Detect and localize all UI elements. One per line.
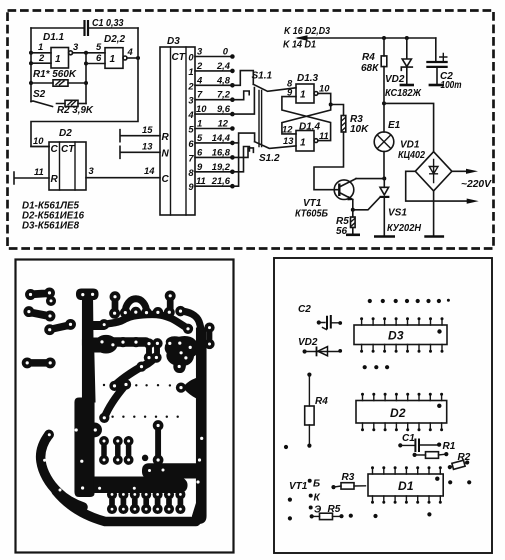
svg-text:15: 15 (142, 124, 153, 135)
resistor R5 (336, 210, 360, 237)
svg-text:КС182Ж: КС182Ж (385, 88, 422, 99)
svg-text:9: 9 (197, 161, 203, 172)
svg-text:C1 0,33: C1 0,33 (92, 18, 124, 29)
wire D2.2 pin6 (86, 63, 105, 65)
trace dumbbell a3 (45, 320, 76, 335)
svg-text:19,2: 19,2 (212, 161, 231, 172)
svg-text:K 14 D1: K 14 D1 (283, 40, 316, 51)
svg-text:S1.1: S1.1 (252, 71, 273, 82)
svg-text:E1: E1 (388, 120, 401, 131)
wire gate VS1 (353, 197, 380, 209)
svg-text:12: 12 (282, 124, 293, 135)
thyristor VS1 (374, 179, 422, 237)
wire bridge bottom terminal (424, 191, 444, 237)
resistor R3 (314, 105, 369, 190)
node D3 out 3 (188, 89, 234, 106)
IC D3 placement (354, 317, 447, 353)
switch S1.2 (232, 133, 296, 186)
capacitor C2 placement (298, 304, 342, 330)
svg-text:12: 12 (218, 118, 229, 129)
drill holes white (26, 291, 211, 510)
wire feed rail K16 (283, 26, 436, 51)
resistor R4 (361, 38, 387, 103)
node D3 out 2 (187, 74, 234, 91)
trace wavy horizontal (104, 314, 193, 333)
trace peninsula and shelf (94, 464, 204, 493)
single pad dot (142, 455, 147, 460)
resistor R2 placement (447, 452, 471, 471)
svg-text:S1.2: S1.2 (259, 153, 280, 164)
wire D2.2 out pin4 (127, 56, 140, 60)
svg-text:2: 2 (38, 52, 45, 63)
svg-text:5: 5 (197, 132, 203, 143)
svg-text:4: 4 (196, 74, 203, 85)
svg-text:C: C (162, 174, 170, 185)
svg-text:D2,2: D2,2 (104, 34, 126, 45)
svg-text:КУ202Н: КУ202Н (387, 223, 422, 234)
gate D1.4 (282, 122, 329, 152)
wire D2 pin10 (31, 135, 49, 147)
svg-text:2: 2 (196, 60, 203, 71)
svg-text:1: 1 (55, 54, 61, 65)
bridge rectifier VD1 (398, 140, 452, 191)
svg-text:D1: D1 (398, 479, 414, 493)
svg-text:14,4: 14,4 (212, 132, 231, 143)
counter U3 D3 (160, 36, 195, 215)
wire top loop C1 (31, 27, 138, 29)
svg-text:9: 9 (188, 181, 194, 192)
trace main trunk (56, 289, 197, 523)
svg-text:7,2: 7,2 (217, 89, 231, 100)
wire lamp to rail (382, 101, 386, 178)
wire feedback loop right (31, 28, 138, 147)
trace right band with hook and flare (176, 306, 206, 523)
svg-text:1: 1 (188, 66, 193, 77)
trace dumbbell a1 (26, 288, 56, 305)
svg-text:R4: R4 (315, 396, 328, 407)
wire D2 pin3 to D3 pin14 (86, 165, 160, 178)
svg-text:3: 3 (89, 165, 95, 176)
zener diode VD2 (385, 38, 422, 99)
svg-text:Б: Б (313, 479, 320, 490)
resistor R1 placement (413, 452, 449, 459)
svg-text:VD2: VD2 (385, 74, 405, 85)
svg-text:3: 3 (188, 95, 194, 106)
wire D1.1 pin1 (31, 52, 51, 54)
svg-text:6: 6 (188, 138, 194, 149)
svg-text:11: 11 (34, 166, 44, 177)
trace dumbbell a2 (24, 307, 55, 321)
svg-text:0: 0 (223, 46, 229, 57)
svg-text:VS1: VS1 (388, 208, 407, 219)
wire left vertical (29, 28, 33, 102)
SCHEMATIC-BORDER (8, 11, 494, 249)
switch link S1 (259, 91, 262, 147)
switch S2 (31, 89, 65, 107)
svg-text:4: 4 (187, 109, 194, 120)
node D3 out 9 (188, 175, 234, 192)
svg-text:К: К (314, 493, 321, 504)
trace banana (41, 430, 83, 507)
wire latch cross 10-12 (282, 93, 333, 133)
svg-text:R2 3,9K: R2 3,9K (57, 105, 94, 116)
svg-text:C1: C1 (402, 433, 415, 444)
solder dots below D3 (363, 365, 390, 369)
op-amp U1 gate D1.1 (38, 32, 79, 68)
wire D1.1 out to D2.2 (73, 51, 105, 55)
svg-text:10: 10 (33, 135, 44, 146)
trace v-dumbbell c1 (144, 339, 153, 362)
resistor R2 (57, 100, 94, 116)
svg-text:K 16 D2,D3: K 16 D2,D3 (284, 26, 330, 37)
trace margin dumbbell d2 (205, 323, 214, 349)
trace wishbone curve1 (110, 358, 155, 391)
solder dots row above D3 (368, 299, 450, 303)
transistor VT1 placement (289, 479, 322, 516)
svg-text:5: 5 (96, 41, 102, 52)
placement frame (274, 258, 492, 553)
resistor R4 placement (305, 373, 329, 448)
svg-text:C: C (51, 144, 59, 155)
svg-text:КТ605Б: КТ605Б (295, 209, 328, 220)
svg-text:2,4: 2,4 (216, 60, 231, 71)
trace dumbbell a4 (22, 358, 55, 368)
trace v-dumbbell b1 (110, 292, 120, 318)
svg-text:3: 3 (197, 46, 203, 57)
svg-text:1: 1 (300, 90, 306, 101)
svg-text:КЦ402: КЦ402 (398, 150, 425, 161)
stray solder dots (284, 445, 471, 521)
svg-text:R: R (51, 174, 59, 185)
svg-text:D3-К561ИЕ8: D3-К561ИЕ8 (22, 221, 79, 232)
svg-text:0: 0 (188, 52, 194, 63)
svg-text:1: 1 (197, 118, 202, 129)
capacitor C1 (85, 18, 124, 36)
SCHEMATIC (14, 18, 195, 232)
node D3 out 8 (188, 161, 234, 178)
svg-text:11: 11 (196, 175, 206, 186)
trace v-dumbbell c2 (152, 339, 162, 362)
node D3 out 7 (188, 146, 234, 163)
trace omega arch cluster (121, 299, 163, 318)
svg-text:CT: CT (172, 52, 186, 63)
svg-text:10K: 10K (350, 124, 369, 135)
svg-text:10: 10 (319, 83, 330, 94)
svg-text:1: 1 (300, 138, 306, 149)
node emitter junction (351, 208, 355, 212)
svg-text:D3: D3 (167, 36, 180, 47)
trace curve2 (100, 380, 131, 423)
svg-text:8: 8 (188, 167, 194, 178)
node D3 out 0 (188, 46, 234, 63)
trace star cluster (165, 337, 198, 373)
svg-text:R1: R1 (443, 441, 456, 452)
wire bridge out top 220V (452, 169, 478, 174)
svg-text:R1* 560K: R1* 560K (33, 69, 77, 80)
wire D1.1 pin2 (31, 62, 51, 64)
svg-text:7: 7 (188, 152, 194, 163)
lamp E1 (374, 120, 400, 152)
svg-text:D1.1: D1.1 (43, 32, 65, 43)
switch S1.1 (232, 71, 296, 115)
svg-text:1: 1 (110, 54, 116, 65)
svg-text:21,6: 21,6 (211, 175, 231, 186)
counter U2 D2 (49, 128, 86, 190)
tall v-dumbbell (153, 421, 163, 465)
svg-text:D3: D3 (388, 329, 404, 343)
svg-text:3: 3 (73, 41, 79, 52)
svg-text:C2: C2 (298, 304, 311, 315)
svg-text:14: 14 (144, 165, 155, 176)
svg-text:S2: S2 (33, 89, 46, 100)
svg-text:VD2: VD2 (298, 337, 318, 348)
svg-text:R4: R4 (362, 52, 375, 63)
node D3 out 4 (187, 103, 234, 120)
capacitor C1 placement (398, 433, 456, 452)
svg-text:VT1: VT1 (303, 198, 322, 209)
svg-text:~220V: ~220V (461, 179, 492, 190)
SCHEMATIC outputs and switches (187, 26, 492, 237)
svg-text:5: 5 (188, 124, 194, 135)
svg-text:D2: D2 (59, 128, 72, 139)
svg-text:D1.3: D1.3 (297, 73, 319, 84)
svg-text:6: 6 (197, 146, 203, 157)
wire bridge out bottom 220V (406, 171, 493, 203)
svg-text:13: 13 (142, 141, 153, 152)
svg-text:11: 11 (319, 130, 329, 141)
wire D3 pin13 with terminal (120, 141, 160, 159)
svg-text:10: 10 (196, 103, 207, 114)
wire collector to lamp line (356, 177, 386, 181)
diode VD2 placement (298, 337, 342, 356)
svg-text:7: 7 (197, 89, 203, 100)
resistor R5 placement (310, 504, 344, 520)
wire latch cross 9-11 (282, 97, 331, 141)
capacitor C2 (426, 38, 461, 91)
svg-text:56: 56 (336, 226, 348, 237)
svg-text:6: 6 (96, 52, 102, 63)
bottom comb dumbbells (108, 490, 185, 514)
resistor R1 (31, 69, 86, 86)
svg-text:9,6: 9,6 (217, 103, 231, 114)
svg-text:100m: 100m (441, 80, 462, 91)
node D3 out 5 (188, 118, 234, 135)
transistor Q1 VT1 (295, 179, 356, 220)
svg-text:N: N (162, 149, 170, 160)
svg-text:CT: CT (61, 144, 75, 155)
svg-text:2: 2 (187, 80, 194, 91)
resistor R3 placement (331, 472, 365, 489)
IC D2 placement (356, 393, 447, 432)
trio v-dumbbells (100, 437, 133, 465)
node D3 out 1 (188, 60, 234, 77)
svg-text:13: 13 (283, 135, 294, 146)
trace v-dumbbell b2 (164, 291, 175, 317)
svg-text:R3: R3 (342, 472, 355, 483)
node D3 out 6 (188, 132, 234, 149)
svg-text:4: 4 (127, 46, 134, 57)
svg-text:16,8: 16,8 (212, 146, 231, 157)
wire mid vertical (84, 53, 88, 104)
svg-text:D2: D2 (390, 406, 406, 420)
svg-text:4,8: 4,8 (216, 74, 231, 85)
drill dot rows (103, 384, 179, 418)
pcb frame (16, 260, 234, 553)
svg-text:D1.4: D1.4 (299, 122, 321, 133)
svg-text:68К: 68К (361, 63, 379, 74)
PCB panel (16, 260, 234, 553)
IC D1 placement (368, 466, 443, 504)
wire D3 pin15 with terminal (120, 124, 160, 142)
svg-text:1: 1 (38, 41, 43, 52)
wire rail to bridge (384, 103, 434, 151)
svg-text:R: R (162, 132, 170, 143)
IC type list (22, 201, 84, 232)
svg-text:VT1: VT1 (289, 481, 308, 492)
gate D1.3 (287, 73, 330, 103)
PLACEMENT panel (274, 258, 492, 553)
trace pad bar (104, 338, 150, 347)
wire D2 pin11 with terminal (14, 166, 49, 184)
gate D2.2 (96, 34, 134, 68)
svg-text:VD1: VD1 (400, 140, 420, 151)
